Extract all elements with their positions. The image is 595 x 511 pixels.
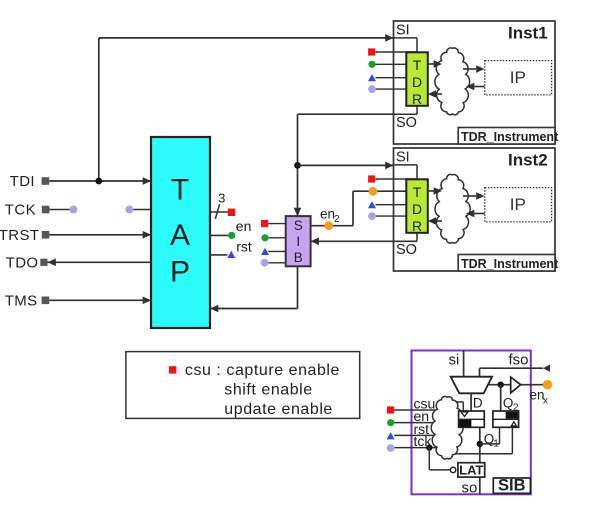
svg-text:R: R (412, 218, 422, 234)
svg-text:SI: SI (396, 149, 410, 165)
svg-text:T: T (413, 184, 422, 200)
svg-text:B: B (294, 250, 303, 265)
svg-text:TMS: TMS (5, 293, 38, 310)
svg-text:en: en (236, 218, 252, 234)
svg-text:TDO: TDO (6, 255, 39, 272)
svg-text:IP: IP (510, 195, 526, 214)
svg-text:update enable: update enable (224, 401, 333, 418)
svg-text:si: si (449, 352, 460, 369)
svg-text:D: D (473, 395, 483, 410)
svg-text:TCK: TCK (5, 202, 36, 219)
svg-text:tck: tck (414, 433, 433, 449)
svg-text:TDI: TDI (10, 173, 35, 190)
svg-text:Q: Q (503, 396, 514, 411)
svg-text:shift enable: shift enable (224, 382, 312, 399)
svg-text:D: D (412, 201, 422, 217)
svg-text:Inst2: Inst2 (508, 151, 548, 170)
svg-text:SO: SO (396, 115, 417, 131)
svg-text:x: x (543, 395, 548, 406)
svg-text:TRST: TRST (0, 227, 40, 244)
svg-text:IP: IP (510, 68, 526, 87)
svg-text:S: S (294, 218, 303, 233)
svg-text:SO: SO (396, 242, 417, 258)
svg-text:2: 2 (334, 214, 340, 225)
svg-text:fso: fso (509, 352, 529, 369)
svg-text:csu : capture enable: csu : capture enable (185, 362, 340, 379)
svg-text:1: 1 (493, 438, 499, 449)
svg-text:SI: SI (396, 22, 410, 38)
svg-text:TDR_Instrument: TDR_Instrument (461, 130, 559, 144)
svg-text:LAT: LAT (459, 462, 483, 477)
svg-text:T: T (413, 57, 422, 73)
svg-text:SIB: SIB (498, 477, 526, 495)
svg-text:P: P (170, 256, 190, 289)
svg-text:R: R (412, 91, 422, 107)
svg-text:A: A (170, 219, 190, 252)
svg-text:TDR_Instrument: TDR_Instrument (461, 257, 559, 271)
svg-text:I: I (296, 234, 300, 249)
svg-text:T: T (171, 174, 189, 207)
svg-text:2: 2 (513, 403, 519, 414)
svg-text:so: so (462, 479, 478, 496)
svg-text:3: 3 (218, 191, 225, 206)
svg-text:rst: rst (236, 239, 252, 255)
svg-text:Inst1: Inst1 (508, 24, 548, 43)
svg-text:D: D (412, 74, 422, 90)
svg-text:en: en (320, 207, 335, 222)
